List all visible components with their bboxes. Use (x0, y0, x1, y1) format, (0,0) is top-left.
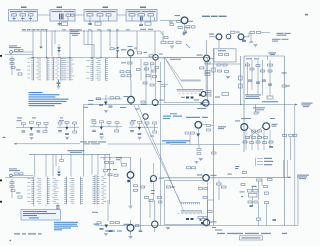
delay box lower top edge (208, 199, 214, 201)
resistor R203a (158, 197, 162, 199)
lower comb row 1 (180, 203, 200, 205)
wire drop x117 (116, 31, 118, 58)
R401 label (169, 22, 173, 23)
capacitor C226 (139, 230, 143, 231)
resistor row R90-R94 (243, 141, 273, 144)
ground (182, 34, 186, 36)
resistor R55 (200, 67, 205, 69)
R173 labels (107, 169, 117, 170)
resistor R38 (146, 75, 150, 77)
see-note label (215, 230, 222, 231)
wire drop x34.8 (34, 154, 36, 176)
wire R210 stem (218, 180, 220, 200)
Q121 label (159, 178, 164, 179)
mod designation box (240, 236, 263, 240)
lower bus labels (211, 221, 217, 228)
wire x83.5 riser (83, 105, 85, 177)
annotation paragraph (blue) (29, 92, 69, 106)
wire rails to grid bus (284, 160, 288, 177)
components below y146 (197, 149, 216, 155)
Q120 emitter blob (127, 180, 130, 182)
resistor R231 (257, 179, 263, 181)
wire link B-C (75, 14, 84, 16)
comb label (181, 97, 185, 98)
resistor R204 (10, 186, 14, 188)
box B title label (57, 7, 63, 8)
box C sub-box (95, 22, 101, 25)
resistor network R30-R33 (120, 71, 131, 77)
wire x146 (145, 65, 147, 105)
R215 blob (200, 219, 202, 221)
margin index mark 2 (0, 180, 2, 182)
wire drop x71 (70, 154, 72, 176)
resistor R230 (243, 171, 247, 173)
stage 1 resistors R120-R123 (22, 121, 49, 124)
transistor Q406 (226, 34, 231, 39)
wire drop x98 (97, 154, 99, 174)
Q121 base blob (150, 180, 152, 182)
switch assembly U5 body (67, 177, 81, 205)
U5 left pins (64, 179, 67, 204)
diode CR201 (39, 47, 42, 49)
resistor R177 (134, 189, 138, 191)
lower comb blobs (186, 218, 194, 220)
resistor R174 (114, 174, 118, 176)
box C capacitor C111 (88, 21, 92, 25)
Q104 labels (218, 120, 240, 129)
grid bus arrowhead (289, 176, 291, 178)
horizontal bus to CRT (84, 104, 298, 106)
resistor R173 (108, 174, 112, 176)
grid bus destination label (297, 175, 309, 180)
diode network CR10 (110, 48, 114, 50)
stage 2 label (59, 120, 64, 121)
net label DOT-POSITION lines (272, 33, 291, 42)
ground (170, 46, 174, 48)
box C header text (86, 11, 116, 12)
notes box (21, 210, 61, 221)
TB1 net labels (101, 176, 106, 203)
delay termination row lower (181, 211, 203, 214)
node dots on bus (105, 104, 241, 105)
resistor R235 (253, 190, 258, 193)
sensitivity label (blue) (94, 224, 100, 225)
delay line box DL1 (214, 49, 236, 62)
stage 4 capacitor C150 (130, 131, 134, 132)
stage 1 wire (16, 124, 48, 130)
tube V224 plate arrow (105, 225, 109, 229)
supply rail x290.5 (290, 137, 292, 160)
feedback line segment 2 (108, 143, 241, 146)
box D rectifier CR120 (129, 14, 135, 16)
transistor Q120 (127, 172, 134, 179)
feedback line label (80, 141, 106, 144)
capacitor C224 (100, 229, 104, 230)
crossed coupling wires (248, 127, 263, 138)
resistor R202b (192, 167, 196, 169)
wire drop x61.5 with capacitor C160 (61, 154, 63, 159)
wire Q401 collector (160, 21, 185, 32)
resistor R212 (199, 188, 203, 190)
wire diode stem 2 (58, 166, 60, 172)
wire (60, 16, 69, 26)
ground (30, 138, 34, 140)
resistor R227 (136, 225, 140, 227)
resistor R205 (18, 196, 22, 198)
resistor R232 (268, 179, 273, 181)
resistor R48 (143, 82, 147, 84)
wire diode link (114, 49, 118, 58)
Q58 label (194, 99, 199, 100)
wire Q104 collector (202, 124, 214, 127)
grid bus (240, 176, 291, 178)
capacitor C90 (269, 147, 273, 148)
resistor R239 (265, 202, 269, 204)
page reference mark top right (305, 14, 308, 16)
resistor R411 (250, 31, 255, 33)
page corner mark (10, 240, 12, 241)
U5 pin labels (70, 178, 75, 204)
capacitor C201 (15, 173, 19, 175)
vertical output box upper (165, 58, 208, 103)
R28 label (121, 62, 126, 63)
switch row 2 label (264, 164, 272, 165)
resistor R45 (110, 97, 114, 99)
U4 left pins (31, 179, 34, 204)
box A filter C101 (20, 14, 26, 16)
U4 pin labels (37, 178, 42, 204)
box A header text (10, 11, 37, 12)
termination labels lower (178, 212, 204, 215)
annotation row (blue) center (163, 116, 208, 119)
U3 pin labels (96, 58, 101, 80)
DL1 resistor Ra (219, 54, 223, 56)
fan wire to comb 2 (165, 58, 183, 89)
resistor R234 (248, 190, 253, 193)
wire drop x70 (69, 31, 71, 81)
resistor R36 (145, 68, 149, 70)
wire rail x140.5 (140, 158, 142, 230)
power supply box B (-100V rectifier) (50, 10, 75, 22)
fan wire to comb 1 (165, 58, 181, 80)
resistor R203b (159, 201, 163, 203)
wire rails under pair (246, 130, 270, 150)
box D header text (128, 11, 156, 12)
Q58 base blob (201, 102, 203, 104)
box D capacitor C120 (148, 14, 154, 16)
stage 3 label (91, 119, 96, 120)
resistor R40 (155, 67, 159, 69)
Q204 label (197, 174, 203, 175)
transistor Q54 (204, 55, 210, 61)
wire arrow diagonal (186, 44, 190, 48)
focus label text (253, 107, 265, 110)
wire rail x108 lower (107, 200, 109, 221)
capacitor C411 (242, 39, 246, 42)
rail resistor R96 (289, 134, 293, 136)
R24 value (144, 52, 148, 53)
stage 2 resistors R130-R132 (58, 121, 77, 124)
capacitor C239 (273, 220, 277, 221)
U1 pin labels (36, 58, 41, 80)
Q54 label (197, 55, 203, 56)
Q405 label (209, 34, 214, 35)
wire (90, 16, 109, 21)
resistor R35 (151, 63, 155, 65)
wire Q121 (153, 163, 155, 200)
transistor Q84 (241, 124, 248, 131)
resistor R240 (265, 192, 269, 194)
resistor R71 (250, 68, 254, 70)
R60 label (215, 97, 220, 98)
box B header text (52, 11, 75, 12)
stage 1 label (17, 120, 22, 121)
wire below y146 (199, 145, 214, 152)
resistor R34 (144, 63, 148, 65)
wire drop x84 (83, 31, 85, 45)
capacitor C70 (248, 80, 252, 81)
U2 fanout wires (63, 58, 67, 80)
Q46 label (159, 100, 164, 101)
stage 1 capacitor C120 (22, 131, 26, 132)
delay network label (252, 186, 257, 187)
resistor R408 (164, 37, 168, 39)
blue note bottom center (105, 231, 122, 232)
wire input shield (5, 54, 33, 56)
R206c label (172, 186, 175, 188)
U2 fanout net labels (67, 58, 74, 80)
switch assembly U2 body (54, 57, 61, 81)
capacitor C72 (256, 82, 260, 83)
capacitor C225 (109, 231, 113, 232)
resistor R107 (207, 129, 211, 131)
annotation (blue) mid right (162, 140, 190, 143)
R170 labels (116, 157, 122, 160)
ground mid lower (195, 162, 199, 164)
wire Q204 collector (209, 177, 240, 179)
transistor Q56 (201, 92, 206, 97)
U1 left pins (31, 58, 34, 80)
U3 left pins (90, 59, 93, 81)
ground (254, 45, 258, 47)
R4 value label (16, 69, 21, 70)
feedback source label (3, 137, 6, 138)
resistor R77 on rail (282, 72, 291, 86)
resistor R75 (268, 70, 272, 72)
resistor R171 (110, 162, 114, 164)
stage 4 resistor R154 (153, 131, 157, 133)
resistor R402 (186, 26, 190, 28)
wire Q224 (130, 220, 132, 236)
box A resistor R101 (29, 14, 34, 16)
switch row 1 label (264, 161, 273, 162)
amplifier stage V24 label (84, 100, 94, 108)
box D transformer T120 (140, 16, 143, 20)
terminal strip TB1 body (95, 175, 97, 205)
ground (65, 137, 69, 139)
wire Q120 (130, 157, 132, 205)
resistor R26 (149, 55, 153, 57)
wire drop x41 (40, 31, 42, 46)
horizontal label (blue) (262, 101, 278, 102)
Q224 label (124, 224, 129, 225)
wire drop x105 with resistor R160 (104, 154, 106, 176)
box A bottom components (13, 18, 33, 19)
Q56 base blob (199, 94, 201, 96)
resistor R74 (268, 64, 273, 66)
model title text (14, 233, 42, 234)
power supply box C (+12V supply) (84, 10, 117, 22)
resistor R404 (178, 27, 183, 29)
capacitor C4 (11, 66, 15, 68)
stage 4 tube arrow (138, 127, 141, 130)
wire below bus (256, 105, 261, 113)
resistor R28 (128, 62, 132, 64)
box A title label (21, 7, 27, 8)
tube V24 plate arrow (104, 102, 108, 106)
transistor Q48 (143, 114, 148, 119)
geometry note text (245, 94, 261, 99)
stage 4 resistors R150-R153 (130, 121, 157, 124)
stage 2 capacitor C130 (58, 131, 62, 132)
capacitor C204 (11, 190, 15, 192)
U1 right pins (47, 58, 50, 80)
TB1 left pins (93, 177, 96, 204)
ground (100, 137, 104, 139)
resistor R5 (18, 73, 22, 75)
delay line termination row 2 (177, 89, 204, 92)
wire drop x155 (154, 31, 156, 55)
transistor Q218 (203, 219, 209, 225)
transistor Q224 (127, 224, 134, 231)
resistor R176 (134, 185, 138, 187)
vertical plate lead left (213, 48, 215, 225)
resistor network R60 (206, 91, 211, 97)
transistor Q46 (152, 100, 158, 106)
resistor R233 (264, 186, 268, 188)
stage 3 resistors R140-R143 (92, 121, 119, 124)
input connector J2 (10, 174, 13, 177)
Q401 label (175, 15, 181, 16)
resistor R4 (10, 62, 14, 64)
stage 3 resistor R144 (115, 130, 119, 132)
capacitor C1 (15, 49, 19, 51)
resistor R406 (231, 31, 236, 33)
resistor R106 (207, 125, 211, 127)
R49 label (157, 81, 162, 82)
resistor R79 (254, 112, 258, 114)
transistor Q121 (151, 176, 157, 182)
resistor R1 (20, 49, 24, 51)
stage note text below bus (120, 107, 139, 110)
wire Q226 (154, 200, 156, 232)
schematic title text (217, 233, 287, 234)
wire input J1 (12, 51, 33, 53)
wire drop x46 (45, 154, 47, 176)
resistor R400 (177, 21, 181, 23)
box D resistor R120 (138, 14, 145, 16)
wire branch y44.5 (84, 45, 94, 58)
delayed trigger note block (71, 29, 81, 35)
net labels between U4 and U5 (52, 178, 58, 204)
switch row 0 label (264, 158, 272, 159)
stage label lower amp (92, 212, 98, 213)
wire drop x56 (55, 154, 57, 166)
rail resistor R97 (293, 134, 297, 136)
stage 1 capacitor C121 (30, 134, 34, 135)
wire Q54 collector (210, 57, 214, 59)
resistor R224 (97, 222, 101, 224)
stage 1 resistor R124 (43, 131, 47, 133)
diode CR11 (116, 47, 119, 52)
box C resistor R110 (106, 14, 111, 16)
wire Q16 to box (158, 57, 164, 59)
delay line termination row 1 (181, 80, 201, 82)
resistor R49 (150, 84, 154, 86)
U4 right pins (47, 179, 50, 204)
resistor R37 (152, 70, 156, 72)
node dots on bus (32, 57, 156, 58)
resistor R178 (141, 186, 145, 188)
delay note label (240, 191, 245, 192)
main horizontal supply rail (22, 30, 161, 32)
resistor R104 (185, 132, 189, 134)
box B transformer T101 (59, 14, 64, 20)
notes box text (blue) (23, 211, 56, 218)
capacitor C160 (60, 160, 64, 162)
wire attenuator chain (11, 56, 13, 75)
lower bus to CRT (95, 224, 298, 226)
comb termination blobs (186, 97, 194, 99)
delay box outline (208, 63, 241, 65)
box A rectifier CR101 (12, 14, 17, 16)
capacitor C404 (183, 32, 187, 34)
resistor R160 (103, 169, 107, 171)
resistor R72 (256, 65, 260, 67)
capacitor C412 (250, 34, 254, 43)
node dots on rail (46, 30, 118, 31)
wire input J2 (12, 175, 33, 177)
resistor R84 (252, 130, 256, 132)
diode pair CR6 CR7 (57, 47, 61, 52)
resistor R76 (267, 96, 273, 99)
U5 right pins (81, 179, 84, 204)
Q204 output labels (211, 174, 233, 176)
arrowhead (14, 143, 17, 145)
stage 2 resistor R133 (73, 131, 77, 133)
signal feed line to comb 1 (134, 105, 181, 203)
wire drop x137 (136, 31, 138, 52)
wire rails lower right (259, 203, 267, 225)
wire drop x92 (91, 31, 93, 58)
resistor R170 (105, 161, 109, 163)
wire (14, 16, 31, 21)
ground (57, 86, 61, 88)
trunk labels (151, 190, 155, 194)
resistor R105 (191, 132, 195, 134)
Q86 labels (272, 124, 278, 127)
resistor R85 (258, 130, 262, 132)
transistor Q405 (216, 34, 222, 40)
resistor R46 (116, 97, 120, 99)
Q44 label (124, 96, 129, 97)
capacitor C45 (109, 106, 113, 107)
resistor R236 (248, 201, 252, 203)
stage 1 tube arrow (30, 127, 33, 130)
resistor R206c (167, 186, 171, 188)
U2 pin labels (56, 58, 60, 80)
ground (104, 234, 108, 236)
